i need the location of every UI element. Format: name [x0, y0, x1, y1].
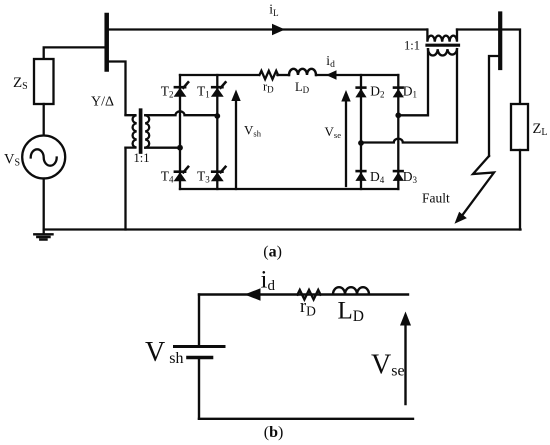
svg-text:VS: VS	[4, 152, 20, 169]
Vse arrow shaft	[345, 101, 347, 187]
arrow head Vsh	[231, 90, 240, 102]
battery Vsh bottom lead	[198, 358, 200, 419]
svg-text:T1: T1	[197, 84, 210, 100]
svg-text:D3: D3	[403, 169, 418, 185]
battery Vsh plate short	[188, 356, 212, 360]
diode bridge left column D2/D4	[360, 75, 362, 189]
wire fault tap from bus	[489, 56, 498, 156]
svg-text:id: id	[326, 53, 335, 70]
resistor rD	[260, 71, 279, 79]
thyristor bridge right column T1/T3	[216, 75, 218, 189]
wire bus to TR1 primary top	[109, 62, 126, 115]
svg-text:T3: T3	[197, 169, 210, 185]
wire (b) top	[199, 293, 408, 295]
svg-text:D2: D2	[370, 83, 384, 99]
svg-text:D4: D4	[370, 169, 385, 185]
diode D3	[393, 171, 404, 181]
transformer TR1 secondary winding	[145, 115, 149, 147]
svg-text:Y/Δ: Y/Δ	[91, 95, 114, 110]
svg-text:Fault: Fault	[422, 190, 450, 205]
Vsh arrow shaft	[235, 100, 237, 189]
source Vs sine	[31, 149, 57, 165]
impedance Zs	[34, 59, 54, 104]
source Vs circle	[22, 136, 65, 179]
svg-text:LD: LD	[338, 297, 364, 325]
wire ZL bottom lead	[519, 150, 521, 230]
diode D1	[393, 88, 404, 98]
transformer TR1 core	[139, 110, 143, 152]
wire top line iL from left bus to transformer TR2	[107, 28, 427, 30]
wire TR1 primary bottom to ground rail	[124, 148, 126, 230]
transformer TR2 primary winding	[427, 30, 457, 42]
svg-text:T2: T2	[161, 84, 174, 100]
diode D2	[355, 88, 366, 98]
arrow head Vse	[341, 90, 350, 102]
diode bridge right column D1/D3	[397, 75, 399, 189]
thyristor bridge left column T2/T4	[179, 75, 181, 189]
wire TR1 secondary bottom to node T2T4	[145, 147, 180, 149]
ground symbol	[34, 234, 52, 239]
svg-text:id: id	[261, 267, 276, 295]
svg-text:D1: D1	[403, 83, 417, 99]
wire source branch to left bus	[44, 47, 105, 59]
wire node D2D4 to TR2 secondary right with hop	[361, 49, 457, 142]
svg-text:(b): (b)	[264, 424, 284, 441]
thyristor T1	[211, 81, 226, 97]
wire node D1D3 to TR2 secondary left	[398, 49, 428, 115]
arrow head id (b)	[245, 288, 261, 300]
svg-text:Vse: Vse	[325, 124, 342, 140]
fault lightning bolt	[460, 156, 495, 219]
wire Zs to Vs	[43, 104, 45, 136]
svg-text:(a): (a)	[263, 244, 282, 261]
svg-text:iL: iL	[269, 2, 278, 19]
svg-text:LD: LD	[295, 80, 310, 95]
load ZL	[511, 104, 528, 150]
junction dot node D1D3 mid	[395, 112, 401, 118]
battery Vsh top lead	[198, 295, 200, 346]
transformer TR2 core	[427, 44, 459, 47]
wire bridge top rail to rD	[180, 74, 258, 76]
wire rail between rD and LD	[277, 74, 289, 76]
thyristor T4	[174, 166, 189, 182]
wire TR2 primary right to ZL top	[457, 30, 520, 105]
junction dot node T2T4 mid	[177, 145, 183, 151]
svg-text:Vse: Vse	[371, 350, 405, 381]
svg-text:T4: T4	[161, 168, 174, 184]
wire (b) bottom	[199, 418, 413, 420]
Vse arrow shaft (b)	[404, 325, 406, 404]
wire TR1 secondary top to node T1T3 with hop over T2T4 column	[145, 111, 217, 115]
diode D4	[355, 171, 366, 181]
svg-text:ZS: ZS	[13, 75, 28, 92]
bus bar right B2	[498, 14, 502, 69]
arrow head Fault	[455, 212, 468, 225]
arrow head iL	[272, 24, 285, 35]
svg-text:Vsh: Vsh	[244, 123, 262, 139]
junction dot node T1T3 mid	[214, 113, 220, 119]
svg-text:ZL: ZL	[533, 121, 548, 138]
thyristor T3	[211, 166, 226, 182]
svg-text:1:1: 1:1	[404, 39, 420, 53]
wire Vs to ground	[43, 179, 45, 234]
resistor rD (b)	[298, 290, 321, 299]
inductor LD	[289, 69, 316, 75]
wire bridge bottom rail shared	[180, 188, 398, 190]
arrow head id	[326, 70, 337, 80]
inductor LD (b)	[333, 287, 369, 294]
junction dot node D2D4 mid	[358, 140, 364, 146]
wire rail LD to diode bridge	[316, 74, 398, 76]
bus bar left B1	[104, 15, 109, 70]
thyristor T2	[174, 81, 189, 97]
transformer TR1 primary winding	[126, 115, 137, 147]
transformer TR2 secondary winding	[428, 49, 457, 55]
svg-text:V sh: V sh	[145, 337, 183, 368]
arrow head Vse (b)	[400, 312, 411, 326]
wire bottom ground rail	[44, 228, 521, 230]
svg-text:1:1: 1:1	[134, 151, 150, 165]
battery Vsh plate long	[175, 345, 225, 348]
